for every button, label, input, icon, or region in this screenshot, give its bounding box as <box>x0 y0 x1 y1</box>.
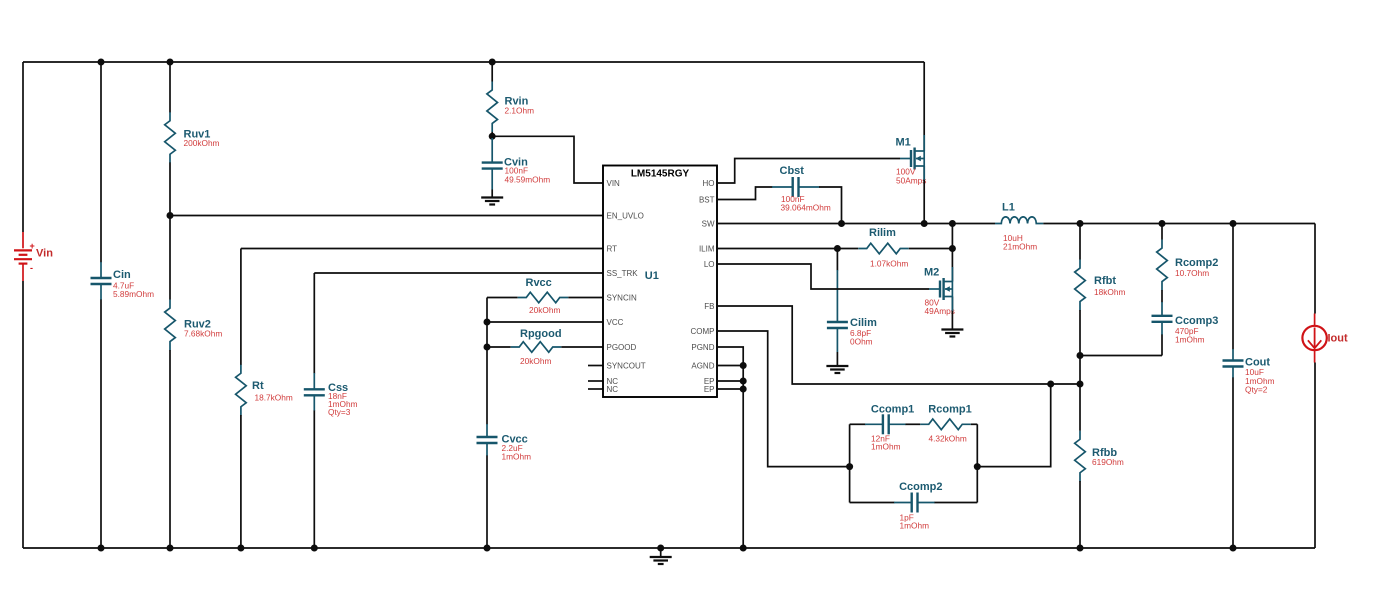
wire Cvcc top segment <box>486 298 488 425</box>
svg-text:M2: M2 <box>924 267 939 279</box>
wire NC1 stub <box>588 380 603 382</box>
value label Cilim <box>850 328 873 347</box>
value label Cout <box>1245 367 1275 395</box>
wire M2 drain to SW <box>951 224 953 282</box>
wire SYNCIN net right <box>568 297 603 299</box>
svg-text:Rpgood: Rpgood <box>520 328 562 340</box>
value label M1 <box>896 167 926 186</box>
label Rcomp2 <box>1175 257 1218 269</box>
svg-text:FB: FB <box>704 302 714 311</box>
wire M1 source to SW <box>923 166 925 224</box>
wire comp left branch <box>849 424 851 502</box>
wire Cout branch top <box>1232 224 1234 350</box>
wire Ccomp3 bottom lead <box>1161 335 1163 356</box>
wire Cin bottom lead <box>100 300 102 549</box>
svg-text:SYNCOUT: SYNCOUT <box>607 361 646 370</box>
svg-text:-: - <box>30 263 33 273</box>
wire top VIN rail <box>23 61 924 63</box>
wire HO to M1 gate <box>717 159 900 184</box>
wire Ccomp1 to Rcomp1 <box>906 423 921 425</box>
wire SW rail <box>717 223 995 225</box>
svg-text:Cbst: Cbst <box>780 165 805 177</box>
svg-text:PGND: PGND <box>691 343 714 352</box>
svg-text:2.1Ohm: 2.1Ohm <box>505 106 535 116</box>
junction Rt / ground rail <box>237 545 244 552</box>
label Ruv1 <box>184 129 211 141</box>
label Cbst <box>780 165 805 177</box>
wire comp bottom left <box>850 502 895 504</box>
svg-text:5.89mOhm: 5.89mOhm <box>113 289 154 299</box>
wire M2 drain lead (teal) <box>951 267 953 282</box>
node VIN filter (Rvin/Cvin) <box>489 133 496 140</box>
value label Cvcc <box>502 443 532 462</box>
junction EN_UVLO tap <box>167 212 174 219</box>
junction PGND / ground rail <box>740 545 747 552</box>
svg-text:39.064mOhm: 39.064mOhm <box>781 203 831 213</box>
wire M1 drain lead (teal) <box>923 135 925 151</box>
transistor M2 (low-side NFET) <box>929 278 952 300</box>
svg-text:AGND: AGND <box>691 361 714 370</box>
op-amp U1 LM5145RGY (controller IC body) <box>603 166 717 398</box>
label Cin <box>113 269 131 281</box>
svg-text:21mOhm: 21mOhm <box>1003 242 1037 252</box>
wire Rcomp2 to Ccomp3 <box>1161 290 1163 303</box>
wire Ruv1-Ruv2 (EN node) <box>169 163 171 300</box>
current source Iout <box>1302 314 1326 363</box>
svg-text:Vin: Vin <box>36 248 53 260</box>
value label Rcomp1 <box>929 434 967 444</box>
wire ILIM net right <box>909 248 953 250</box>
wire Cilim to ground <box>836 352 838 366</box>
label Css <box>328 382 348 394</box>
svg-text:1mOhm: 1mOhm <box>1175 335 1205 345</box>
svg-text:SS_TRK: SS_TRK <box>607 269 639 278</box>
transistor M1 (high-side NFET) <box>900 148 924 170</box>
junction Rfbb / ground rail <box>1077 545 1084 552</box>
junction Rfbt / VOUT rail <box>1077 220 1084 227</box>
svg-text:EP: EP <box>704 385 715 394</box>
value label Ruv2 <box>184 329 222 339</box>
value label Rpgood <box>520 356 551 366</box>
wire Rfbt bottom segment <box>1079 310 1081 384</box>
wire SS_TRK net <box>314 272 603 274</box>
wire M1 drain to top rail <box>923 62 925 151</box>
wire Iout top <box>1314 224 1316 314</box>
junction Css / ground rail <box>311 545 318 552</box>
wire Rvin top lead <box>491 62 493 82</box>
resistor Rt <box>236 365 247 416</box>
wire EP2 stub <box>717 388 743 390</box>
wire ILIM net left <box>717 248 858 250</box>
junction ground rail / ground symbol <box>657 545 664 552</box>
label Rfbb <box>1092 447 1117 459</box>
wire Cin top lead <box>100 62 102 263</box>
wire PGOOD net right <box>561 346 603 348</box>
wire comp right branch <box>976 424 978 502</box>
capacitor Cin <box>91 262 112 300</box>
svg-text:20kOhm: 20kOhm <box>520 356 551 366</box>
ground main (power ground) <box>650 548 672 564</box>
label Rpgood <box>520 328 562 340</box>
svg-text:619Ohm: 619Ohm <box>1092 457 1124 467</box>
wire Rcomp1 to right branch <box>971 423 978 425</box>
wire AGND stub <box>717 365 743 367</box>
label Rilim <box>869 227 896 239</box>
wire Rt top segment <box>240 249 242 366</box>
wire PGOOD net left <box>487 346 511 348</box>
wire VCC net <box>487 321 603 323</box>
wire bottom ground rail <box>23 547 1315 549</box>
value label Ccomp1 <box>871 434 901 452</box>
svg-text:50Amps: 50Amps <box>896 176 926 186</box>
svg-text:Rvcc: Rvcc <box>526 277 552 289</box>
label Rvin <box>505 96 529 108</box>
junction comp right node <box>974 463 981 470</box>
capacitor Cout <box>1223 349 1244 378</box>
svg-text:7.68kOhm: 7.68kOhm <box>184 329 222 339</box>
wire Rfbb bottom segment <box>1079 481 1081 548</box>
resistor Rfbb <box>1075 431 1086 482</box>
wire Rvin to Cvin node <box>491 132 493 136</box>
junction comp left node <box>846 463 853 470</box>
wire EP1 stub <box>717 380 743 382</box>
junction M2 drain / SW <box>949 220 956 227</box>
resistor Ruv1 <box>165 112 176 163</box>
wire LO to M2 gate <box>717 264 929 289</box>
value label M2 <box>925 298 955 317</box>
label Cout <box>1245 357 1270 369</box>
wire EN_UVLO net <box>170 215 603 217</box>
junction Ruv1 / top rail <box>167 59 174 66</box>
svg-text:VIN: VIN <box>607 179 621 188</box>
label L1 <box>1002 202 1015 214</box>
svg-text:EN_UVLO: EN_UVLO <box>607 211 644 220</box>
value label Rvin <box>505 106 535 116</box>
value label Rt <box>255 393 293 403</box>
wire Cbst to SW <box>819 187 842 224</box>
junction AGND <box>740 362 747 369</box>
wire Css top segment <box>313 273 315 374</box>
label Ccomp1 <box>871 404 914 416</box>
wire Rt bottom segment <box>240 415 242 548</box>
svg-text:Ccomp2: Ccomp2 <box>899 481 942 493</box>
value label Css <box>328 391 358 417</box>
capacitor Ccomp2 <box>894 493 935 513</box>
junction Rfbt / Ccomp3 wire <box>1077 352 1084 359</box>
wire left rail lower (Vin- to ground rail) <box>22 281 24 548</box>
svg-text:+: + <box>30 241 35 251</box>
wire Ruv1 top lead <box>169 62 171 113</box>
value label Rfbb <box>1092 457 1124 467</box>
wire SYNCOUT stub <box>588 365 603 367</box>
wire Cilim branch <box>836 249 838 271</box>
label M2 <box>924 267 939 279</box>
junction Ruv2 / ground rail <box>167 545 174 552</box>
value label Rfbt <box>1094 287 1125 297</box>
svg-text:PGOOD: PGOOD <box>607 343 637 352</box>
svg-text:COMP: COMP <box>691 327 715 336</box>
svg-text:4.32kOhm: 4.32kOhm <box>929 434 967 444</box>
voltage source Vin (battery) <box>14 232 35 281</box>
wire PGND net <box>717 347 743 548</box>
resistor Rvcc <box>518 292 569 303</box>
svg-text:LO: LO <box>704 260 715 269</box>
capacitor Css <box>304 373 325 411</box>
ground Cvin <box>481 198 503 205</box>
wire M2 source to ground <box>951 297 953 330</box>
capacitor Cvin <box>482 138 503 190</box>
label Ccomp3 <box>1175 315 1218 327</box>
wire FB net <box>717 306 1080 384</box>
junction EP1 <box>740 378 747 385</box>
value label Ccomp2 <box>900 512 930 530</box>
junction Rilim / M2 drain <box>949 245 956 252</box>
svg-text:HO: HO <box>703 179 715 188</box>
label M1 <box>896 137 911 149</box>
svg-text:1mOhm: 1mOhm <box>900 520 930 530</box>
svg-text:10.7Ohm: 10.7Ohm <box>1175 268 1209 278</box>
value label Cbst <box>781 194 831 213</box>
capacitor Cvcc <box>477 424 498 456</box>
svg-text:RT: RT <box>607 244 618 253</box>
wire M2 source lead (teal) <box>951 297 953 312</box>
capacitor Ccomp1 <box>865 414 906 434</box>
svg-text:20kOhm: 20kOhm <box>529 305 560 315</box>
wire comp output to FB <box>977 384 1050 467</box>
resistor Rfbt <box>1075 260 1086 311</box>
svg-text:SYNCIN: SYNCIN <box>607 293 637 302</box>
ground Cilim <box>826 366 848 373</box>
label Ccomp2 <box>899 481 942 493</box>
svg-text:BST: BST <box>699 195 715 204</box>
wire NC2 stub <box>588 388 603 390</box>
junction Cilim tap / ILIM <box>834 245 841 252</box>
label Cilim <box>850 317 877 329</box>
svg-text:Qty=2: Qty=2 <box>1245 385 1268 395</box>
value label Rcomp2 <box>1175 268 1209 278</box>
value label Rvcc <box>529 305 560 315</box>
svg-text:0Ohm: 0Ohm <box>850 337 873 347</box>
svg-text:49.59mOhm: 49.59mOhm <box>505 175 551 185</box>
label Iout <box>1328 333 1348 345</box>
junction PGOOD tap <box>484 344 491 351</box>
junction EP2 <box>740 386 747 393</box>
resistor Rcomp1 <box>920 419 971 430</box>
label Rt <box>252 380 264 392</box>
wire Css bottom segment <box>313 411 315 549</box>
svg-text:U1: U1 <box>645 270 659 282</box>
junction VCC tap <box>484 319 491 326</box>
wire Rfbt top segment <box>1079 224 1081 260</box>
svg-text:M1: M1 <box>896 137 911 149</box>
ground M2 <box>941 330 963 337</box>
value label Cvin <box>505 166 551 185</box>
resistor Rvin <box>487 81 498 132</box>
value label Cin <box>113 281 154 300</box>
value label Ruv1 <box>184 138 220 148</box>
wire M1 source lead (teal) <box>923 166 925 180</box>
resistor Ruv2 <box>165 300 176 351</box>
junction Cout / ground rail <box>1230 545 1237 552</box>
svg-text:Ccomp1: Ccomp1 <box>871 404 914 416</box>
capacitor Cilim <box>827 270 848 352</box>
svg-text:1mOhm: 1mOhm <box>502 452 532 462</box>
value label Ccomp3 <box>1175 326 1205 345</box>
wire Cout branch bottom <box>1232 378 1234 549</box>
junction Rcomp2 / VOUT rail <box>1159 220 1166 227</box>
wire VOUT rail <box>1043 223 1315 225</box>
svg-text:Iout: Iout <box>1328 333 1348 345</box>
pin labels U1 <box>607 179 715 394</box>
inductor L1 <box>995 217 1043 224</box>
wire comp top branch <box>850 423 866 425</box>
svg-text:1mOhm: 1mOhm <box>871 442 901 452</box>
svg-text:18.7kOhm: 18.7kOhm <box>255 393 293 403</box>
svg-text:Rt: Rt <box>252 380 264 392</box>
capacitor Cbst <box>772 177 820 197</box>
wire Cvcc bottom segment <box>486 456 488 549</box>
svg-text:Rilim: Rilim <box>869 227 896 239</box>
junction comp network / FB <box>1047 381 1054 388</box>
resistor Rcomp2 <box>1157 240 1168 291</box>
wire comp bottom right <box>935 502 978 504</box>
svg-text:LM5145RGY: LM5145RGY <box>631 168 690 179</box>
svg-text:18kOhm: 18kOhm <box>1094 287 1125 297</box>
resistor Rpgood <box>511 342 562 353</box>
svg-text:Cin: Cin <box>113 269 131 281</box>
junction M1 source / SW <box>921 220 928 227</box>
label Vin <box>36 248 53 260</box>
wire Rfbb top segment <box>1079 384 1081 431</box>
label Rvcc <box>526 277 552 289</box>
wire COMP net <box>717 331 850 467</box>
resistor Rilim <box>858 243 909 254</box>
svg-text:200kOhm: 200kOhm <box>184 138 220 148</box>
label Cvin <box>504 157 528 169</box>
svg-text:NC: NC <box>607 385 619 394</box>
value label L1 <box>1003 233 1037 252</box>
wire VIN pin route <box>492 136 603 183</box>
svg-text:ILIM: ILIM <box>699 244 715 253</box>
junction FB / feedback divider <box>1077 381 1084 388</box>
wire RT net horizontal <box>241 248 603 250</box>
capacitor Ccomp3 <box>1152 302 1173 335</box>
junction Cvcc / ground rail <box>484 545 491 552</box>
svg-text:1.07kOhm: 1.07kOhm <box>870 259 908 269</box>
wire Ruv2 bottom lead <box>169 350 171 548</box>
label Ruv2 <box>184 319 211 331</box>
wire Iout bottom <box>1314 363 1316 549</box>
svg-text:L1: L1 <box>1002 202 1015 214</box>
junction Cout / VOUT rail <box>1230 220 1237 227</box>
wire Cvin to ground <box>491 190 493 198</box>
wire Rfbt-Ccomp3 link <box>1080 355 1162 357</box>
wire SYNCIN net left <box>487 297 518 299</box>
wire BST to Cbst <box>717 187 773 200</box>
label U1 <box>645 270 659 282</box>
svg-text:49Amps: 49Amps <box>925 306 955 316</box>
junction Cbst / SW <box>838 220 845 227</box>
label Rfbt <box>1094 275 1116 287</box>
svg-text:SW: SW <box>702 219 715 228</box>
wire left rail upper (Vin+ to top rail) <box>22 62 24 232</box>
wire Rcomp2 top segment <box>1161 224 1163 240</box>
svg-text:Qty=3: Qty=3 <box>328 407 351 417</box>
junction Cin / top rail <box>98 59 105 66</box>
label Rcomp1 <box>928 404 971 416</box>
svg-text:VCC: VCC <box>607 318 624 327</box>
svg-text:Rcomp1: Rcomp1 <box>928 404 971 416</box>
svg-text:Rfbt: Rfbt <box>1094 275 1116 287</box>
value label Rilim <box>870 259 908 269</box>
junction Cin / ground rail <box>98 545 105 552</box>
label Cvcc <box>502 434 528 446</box>
junction Rvin / top rail <box>489 59 496 66</box>
